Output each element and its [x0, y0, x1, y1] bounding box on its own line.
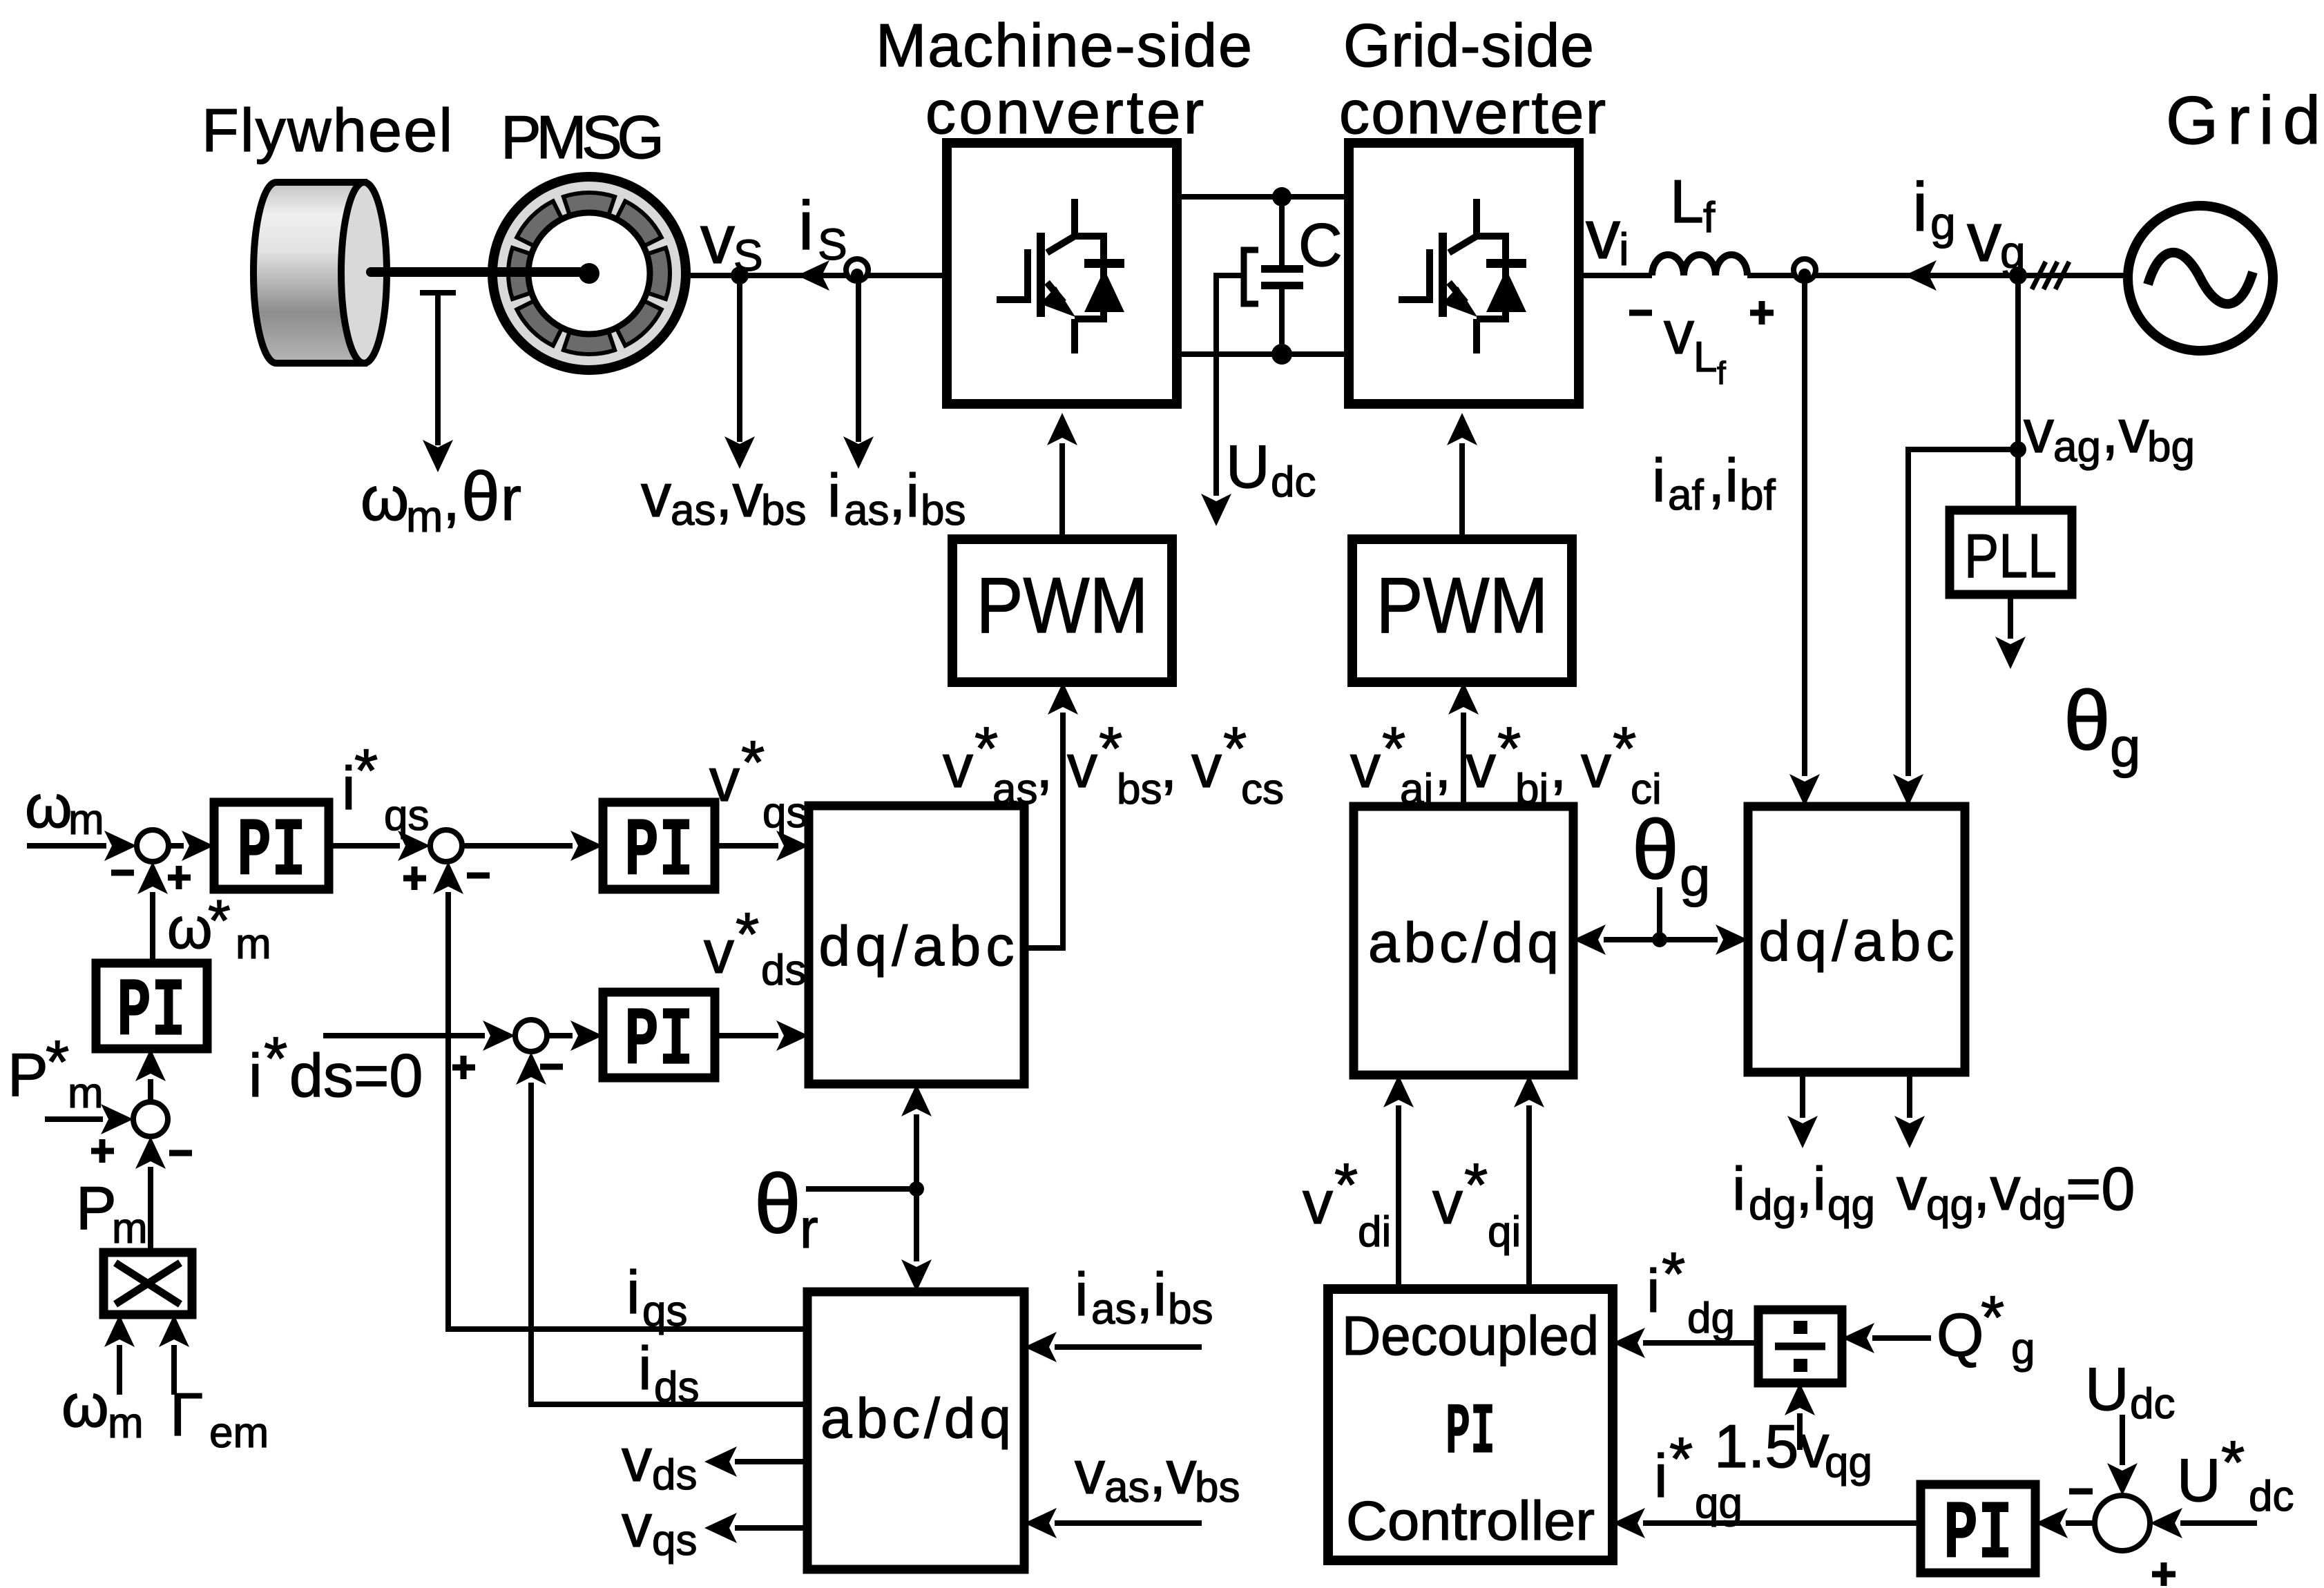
svg-text:em: em: [209, 1409, 269, 1457]
wire Q*g to divider: [1872, 1335, 1931, 1341]
wire vag,vbg to dq/abc block: [1908, 449, 2018, 776]
dc link top wire: [1177, 194, 1349, 200]
svg-text:v: v: [1075, 1438, 1105, 1507]
svg-text:Grid: Grid: [2166, 82, 2321, 158]
svg-text:PWM: PWM: [1376, 562, 1548, 650]
svg-text:PI: PI: [1446, 1393, 1495, 1474]
wire sum3 to PI3: [547, 1033, 573, 1038]
svg-text:qs: qs: [384, 792, 429, 840]
svg-text:v: v: [641, 461, 671, 530]
svg-text:bi: bi: [1515, 766, 1548, 813]
current sensor iaf: [1794, 259, 1816, 281]
svg-text:U: U: [1226, 432, 1270, 501]
svg-text:af: af: [1668, 472, 1704, 519]
wire grid node down to vag junction: [2015, 275, 2021, 449]
PI controller PI5 (dc voltage): [1921, 1484, 2035, 1573]
label minus vLf: [1629, 310, 1652, 316]
svg-text:,: ,: [1550, 732, 1566, 800]
svg-text:m: m: [108, 1400, 144, 1447]
wire PMSG to machine-side converter (node vs): [691, 273, 947, 278]
svg-text:v: v: [943, 732, 973, 800]
svg-text:bs: bs: [921, 487, 966, 534]
svg-text:i: i: [1652, 446, 1666, 514]
shaft speed tap: [420, 293, 456, 445]
svg-text:f: f: [1717, 355, 1726, 391]
svg-text:S: S: [818, 220, 847, 269]
inductor Lf: [1652, 255, 1747, 275]
svg-text:PI: PI: [624, 995, 693, 1089]
svg-text:qi: qi: [1488, 1208, 1521, 1256]
label plus sum5: [2152, 1562, 2176, 1586]
svg-text:*: *: [741, 728, 765, 796]
svg-text:S: S: [733, 231, 763, 280]
svg-text:*: *: [1669, 1424, 1693, 1493]
label vLf: [1664, 298, 1726, 391]
svg-text:=0: =0: [2066, 1154, 2135, 1223]
wire PI1 to sum2 (i*qs): [329, 843, 400, 849]
svg-text:,v: ,v: [716, 461, 762, 530]
label iaf,ibf: [1652, 446, 1776, 519]
svg-text:v: v: [1191, 732, 1222, 800]
feedback wire iqs: [448, 892, 807, 1329]
PI controller PI2 (q current): [603, 802, 715, 889]
label v*ai,v*bi,v*ci: [1350, 714, 1662, 813]
svg-text:abc/dq: abc/dq: [820, 1387, 1011, 1450]
wire U*dc into sum5: [2180, 1520, 2257, 1526]
svg-text:PMSG: PMSG: [501, 103, 664, 171]
svg-text:qg: qg: [1695, 1480, 1742, 1527]
svg-text:v: v: [1581, 732, 1611, 800]
output wire vqg,vdg: [1907, 1072, 1912, 1118]
svg-text:C: C: [1298, 211, 1343, 279]
svg-text:i: i: [798, 187, 814, 264]
wire Udc into sum5: [2120, 1415, 2125, 1465]
summing junction sum5: [2095, 1495, 2150, 1551]
svg-text:i: i: [1732, 1154, 1746, 1223]
svg-text:Γ: Γ: [170, 1380, 203, 1449]
svg-text:v: v: [1303, 1168, 1333, 1237]
svg-text:qs: qs: [652, 1517, 697, 1565]
svg-text:Grid-side: Grid-side: [1343, 11, 1594, 79]
svg-text:cs: cs: [1241, 766, 1284, 813]
svg-text:ds: ds: [652, 1451, 697, 1499]
wire sum2 to PI2: [462, 843, 573, 849]
wire theta_r to junction: [806, 1186, 916, 1192]
label minus sum4: [169, 1150, 192, 1156]
svg-text:as: as: [1104, 1464, 1149, 1511]
wire v*qi to abc/dq grid: [1526, 1105, 1532, 1289]
label vas,vbs: [641, 461, 806, 534]
arrow is on stator wire: [797, 260, 829, 291]
svg-text:ω: ω: [25, 772, 73, 840]
svg-text:v: v: [1067, 732, 1097, 800]
svg-text:qg: qg: [1827, 1181, 1875, 1229]
svg-text:Decoupled: Decoupled: [1342, 1305, 1599, 1366]
svg-text:dg: dg: [2019, 1181, 2066, 1229]
svg-text:PI: PI: [1943, 1489, 2013, 1582]
label plus sum4: [91, 1139, 114, 1163]
svg-text:abc/dq: abc/dq: [1368, 911, 1559, 974]
measurement line ias,ibs: [856, 275, 861, 442]
svg-text:m: m: [406, 492, 443, 541]
svg-text:PI: PI: [117, 966, 186, 1060]
svg-text:g: g: [1930, 197, 1956, 249]
svg-text:dc: dc: [2249, 1473, 2294, 1520]
svg-text:,v: ,v: [1149, 1438, 1196, 1507]
svg-text:*: *: [208, 888, 231, 953]
svg-text:ds: ds: [654, 1364, 699, 1411]
svg-text:PWM: PWM: [977, 562, 1149, 650]
PI controller PI3 (d current): [603, 992, 715, 1078]
svg-text:*: *: [1334, 1150, 1358, 1219]
wire PWM to grid converter: [1459, 443, 1465, 539]
PI controller PI1 (speed): [214, 802, 329, 889]
PWM box grid-side: [1352, 539, 1572, 682]
wire theta_r to dq/abc and abc/dq: [914, 1114, 919, 1261]
junction theta_r: [909, 1181, 924, 1197]
svg-text:g: g: [2110, 717, 2141, 778]
svg-text:dc: dc: [2130, 1380, 2175, 1428]
svg-text:i: i: [1646, 1257, 1660, 1325]
svg-text:v: v: [1664, 298, 1694, 367]
svg-text:bf: bf: [1740, 472, 1776, 519]
svg-text:Machine-side: Machine-side: [876, 11, 1252, 79]
svg-text:v: v: [1896, 1154, 1927, 1223]
svg-text:v: v: [1432, 1168, 1463, 1237]
summing junction sum3: [515, 1020, 547, 1052]
PLL box: [1950, 510, 2072, 594]
junction dc+: [1272, 187, 1291, 206]
junction dc-: [1271, 344, 1292, 365]
wire theta_g double arrow: [1604, 937, 1718, 942]
wire omega_m into multiplier: [117, 1345, 122, 1395]
svg-text:as: as: [671, 487, 716, 534]
three-phase hash marks: [2032, 262, 2069, 289]
abc/dq block machine: [807, 1292, 1024, 1569]
svg-text:θ: θ: [1632, 802, 1679, 896]
svg-text:r: r: [800, 1198, 818, 1259]
wire divider to decoupled controller: [1643, 1340, 1758, 1346]
PMSG generator symbol: [492, 177, 686, 370]
multiplier block X: [104, 1252, 192, 1315]
svg-text:i: i: [1654, 1442, 1668, 1510]
svg-text:,i: ,i: [1136, 1260, 1166, 1328]
svg-text:*: *: [354, 736, 378, 804]
svg-text:i: i: [249, 1041, 262, 1110]
junction theta_g: [1652, 932, 1667, 947]
wire 1.5vqg into divider: [1797, 1413, 1803, 1450]
svg-text:v: v: [709, 746, 740, 814]
wire ias,ibs into abc/dq: [1055, 1344, 1202, 1350]
svg-text:m: m: [112, 1205, 148, 1252]
svg-text:i: i: [638, 1334, 652, 1402]
summing junction sum4: [133, 1102, 168, 1136]
decoupled PI controller box: [1328, 1289, 1613, 1560]
dq/abc block grid: [1748, 806, 1965, 1072]
wire sum5 to PI5: [2066, 1520, 2095, 1526]
svg-text:,i: ,i: [889, 461, 919, 530]
svg-text:ds: ds: [761, 947, 806, 994]
svg-text:ω: ω: [167, 895, 213, 960]
wire PI4 to sum1 (omega*m): [150, 892, 155, 963]
wire theta_g stub: [1657, 887, 1662, 940]
dc link bottom wire: [1177, 351, 1349, 357]
svg-text:v: v: [700, 201, 735, 278]
PI controller PI4 (power): [96, 963, 207, 1049]
label omega_m,theta_r: [361, 458, 521, 541]
feedback wire ids: [531, 1083, 807, 1404]
svg-text:*: *: [2221, 1428, 2245, 1496]
svg-text:di: di: [1358, 1208, 1391, 1256]
label vqg,vdg=0: [1896, 1154, 2135, 1229]
svg-text:as: as: [844, 487, 889, 534]
svg-text:PLL: PLL: [1964, 522, 2057, 591]
svg-text:*: *: [1981, 1283, 2004, 1351]
svg-text:PI: PI: [624, 806, 693, 900]
svg-text:m: m: [236, 920, 271, 968]
svg-text:Q: Q: [1937, 1301, 1984, 1369]
wire PI3 to dq/abc: [715, 1033, 778, 1038]
PWM box machine-side: [952, 539, 1172, 682]
wire PLL to theta_g: [2008, 594, 2013, 639]
svg-text:bs: bs: [1117, 766, 1162, 813]
svg-text:,v: ,v: [1973, 1154, 2020, 1223]
svg-text:ag: ag: [2053, 423, 2101, 471]
wire iaf,ibf to dq/abc block: [1802, 275, 1807, 776]
wire converter to Lf (node vi): [1579, 273, 1652, 278]
label minus sum5: [2069, 1489, 2093, 1495]
svg-text:bs: bs: [1195, 1464, 1240, 1511]
svg-text:v: v: [622, 1491, 652, 1560]
arrow ig on grid wire: [1904, 260, 1937, 291]
svg-text:P: P: [76, 1174, 117, 1242]
svg-text:i: i: [1912, 168, 1928, 246]
wire dq/abc to PWM machine: [1024, 713, 1063, 948]
junction grid node: [2009, 267, 2027, 284]
wire P*m to sum4: [45, 1116, 103, 1122]
label vag,vbg: [2024, 397, 2195, 471]
wire v*di to abc/dq grid: [1396, 1105, 1401, 1289]
svg-text:Controller: Controller: [1346, 1490, 1595, 1551]
svg-text:ω: ω: [361, 465, 409, 534]
svg-text:ds=0: ds=0: [289, 1041, 423, 1110]
svg-text:v: v: [1350, 732, 1381, 800]
svg-text:g: g: [2000, 226, 2026, 278]
svg-text:ω: ω: [61, 1371, 109, 1440]
grid source circle: [2128, 206, 2273, 351]
svg-text:i: i: [626, 1258, 640, 1326]
svg-text:qg: qg: [1825, 1439, 1872, 1487]
svg-text:m: m: [68, 1069, 104, 1117]
svg-text:qs: qs: [642, 1288, 687, 1335]
label ias,ibs feedback: [1075, 1260, 1213, 1333]
svg-text:*: *: [1662, 1239, 1685, 1308]
wire vag junction to PLL: [2015, 449, 2021, 510]
svg-text:U: U: [2177, 1446, 2221, 1514]
svg-text:P: P: [8, 1040, 48, 1109]
svg-text:bg: bg: [2147, 423, 2195, 471]
svg-text:i: i: [827, 461, 841, 530]
wire PI5 to decoupled controller: [1643, 1520, 1921, 1526]
wire sum4 to PI4: [148, 1079, 153, 1102]
svg-text:,: ,: [443, 465, 460, 534]
label plus vLf: [1750, 301, 1774, 325]
svg-text:dg: dg: [1749, 1181, 1796, 1229]
svg-text:PI: PI: [237, 806, 306, 900]
svg-text:,: ,: [1036, 732, 1053, 800]
label plus sum1: [168, 866, 191, 889]
wire sum1 to PI1: [169, 843, 184, 849]
svg-text:L: L: [1670, 167, 1704, 235]
svg-text:*: *: [736, 900, 759, 968]
svg-text:qs: qs: [762, 789, 807, 837]
svg-text:,: ,: [1434, 732, 1451, 800]
dq/abc block machine: [809, 806, 1024, 1084]
svg-text:*: *: [264, 1024, 287, 1092]
svg-text:v: v: [1586, 196, 1620, 273]
measurement line Udc: [1216, 275, 1241, 496]
grid source sine: [2148, 253, 2253, 304]
machine-side converter box: [947, 143, 1177, 404]
summing junction sum1: [137, 830, 169, 862]
wire torque into multiplier: [171, 1345, 177, 1395]
abc/dq block grid: [1354, 806, 1573, 1075]
wire Lf to grid: [1747, 273, 2128, 278]
svg-text:m: m: [68, 796, 104, 844]
shaft flywheel to PMSG: [371, 267, 589, 277]
svg-text:g: g: [2011, 1325, 2035, 1373]
flywheel cylinder: [253, 182, 387, 363]
svg-text:i: i: [342, 754, 356, 822]
label plus sum2: [403, 866, 426, 890]
svg-text:v: v: [704, 918, 734, 986]
svg-text:as: as: [1091, 1286, 1136, 1333]
grid-side converter box: [1349, 143, 1579, 404]
junction vag,vbg: [2010, 441, 2026, 458]
svg-text:qg: qg: [1926, 1181, 1974, 1229]
output wire vds: [735, 1459, 807, 1464]
svg-text:dc: dc: [1271, 458, 1316, 506]
output wire idg,iqg: [1800, 1072, 1805, 1118]
svg-text:1.5v: 1.5v: [1714, 1412, 1829, 1480]
label minus sum3: [540, 1064, 563, 1070]
svg-text:as: as: [992, 766, 1037, 813]
wire omega_m to sum1: [27, 843, 106, 849]
wire PWM to machine converter: [1059, 443, 1065, 539]
wire PI2 to dq/abc: [715, 843, 778, 849]
svg-text:*: *: [1464, 1150, 1488, 1219]
svg-text:dg: dg: [1687, 1295, 1735, 1342]
label v*as,v*bs,v*cs: [943, 714, 1284, 813]
svg-text:,i: ,i: [1708, 446, 1738, 514]
svg-text:U: U: [2085, 1355, 2129, 1423]
svg-text:θ: θ: [754, 1156, 801, 1250]
wire multiplier to sum4: [148, 1167, 153, 1252]
svg-text:i: i: [1619, 224, 1629, 275]
label vas,vbs feedback: [1075, 1438, 1240, 1511]
svg-text:,: ,: [1160, 732, 1177, 800]
junction node vs: [731, 267, 749, 284]
svg-text:θ: θ: [461, 458, 500, 535]
svg-text:bs: bs: [761, 487, 806, 534]
measurement line vas,vbs: [737, 275, 742, 442]
svg-text:f: f: [1703, 194, 1716, 242]
label ias,ibs: [827, 461, 966, 534]
svg-text:i: i: [1075, 1260, 1088, 1328]
svg-text:g: g: [1680, 846, 1711, 907]
divider block: [1758, 1310, 1842, 1383]
current sensor is: [846, 259, 868, 281]
wire i*ds to sum3: [323, 1033, 485, 1038]
wire abc/dq to PWM grid: [1461, 713, 1466, 806]
svg-text:,i: ,i: [1796, 1154, 1826, 1223]
label idg,iqg: [1732, 1154, 1875, 1229]
svg-text:v: v: [1967, 199, 2001, 276]
wire vas,vbs into abc/dq: [1055, 1520, 1202, 1526]
svg-text:v: v: [622, 1426, 652, 1494]
svg-text:bs: bs: [1168, 1286, 1213, 1333]
output wire vqs: [735, 1525, 807, 1531]
svg-text:ai: ai: [1400, 766, 1433, 813]
svg-text:L: L: [1693, 333, 1717, 381]
label minus sum2: [467, 873, 490, 879]
svg-text:v: v: [2024, 397, 2054, 465]
svg-text:converter: converter: [1339, 78, 1606, 146]
capacitor C: [1244, 197, 1303, 354]
label plus sum3: [452, 1056, 475, 1079]
svg-text:r: r: [501, 465, 521, 534]
IGBT grid-side: [1399, 199, 1526, 354]
svg-text:*: *: [46, 1027, 69, 1096]
svg-text:θ: θ: [2064, 673, 2111, 767]
svg-text:v: v: [1466, 732, 1496, 800]
label minus sum1: [111, 870, 134, 876]
svg-text:,v: ,v: [2102, 397, 2149, 465]
IGBT machine-side: [997, 199, 1124, 354]
summing junction sum2: [430, 830, 462, 862]
